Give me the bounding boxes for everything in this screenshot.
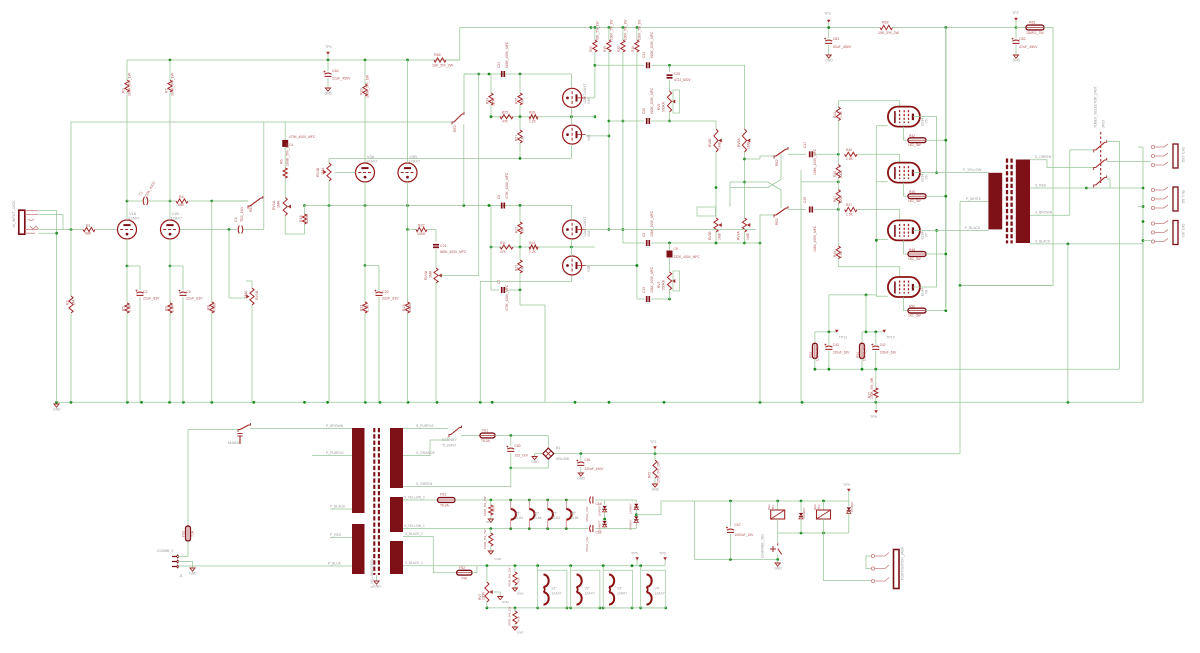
capacitor C5 (180, 292, 187, 293)
wire (1142, 220, 1144, 402)
wire g3 stub (876, 239, 888, 241)
svg-text:1N4007: 1N4007 (628, 519, 632, 530)
ground rail net GND y=402 (57, 401, 1143, 403)
wire channel A merge (745, 158, 761, 160)
potentiometer RV4B (328, 158, 330, 163)
svg-text:47K: 47K (500, 250, 507, 254)
wire coil rail (778, 532, 849, 534)
wire RE3 down (463, 125, 465, 206)
wire V8 grid (838, 267, 899, 277)
svg-text:12AX7: 12AX7 (171, 216, 183, 221)
svg-text:V5": V5" (515, 512, 521, 516)
triode V4A (563, 88, 582, 107)
svg-text:S_BLACK: S_BLACK (1035, 240, 1051, 244)
svg-text:1MA: 1MA (277, 200, 281, 208)
wire V3A cathode (364, 182, 366, 266)
svg-text:TP8: TP8 (870, 415, 877, 419)
svg-text:EL84: EL84 (571, 516, 579, 520)
svg-text:RV1A: RV1A (272, 200, 276, 210)
wire V5 cathode (902, 127, 904, 141)
svg-text:RV1B: RV1B (255, 290, 259, 300)
resistor R64 (514, 566, 516, 572)
wire row247 (491, 246, 571, 248)
svg-text:TL39PO: TL39PO (442, 444, 456, 448)
wire right block top (862, 331, 884, 333)
svg-text:R68: R68 (517, 616, 521, 622)
heater V2'' 12AX7 (571, 570, 600, 608)
ground symbol (325, 88, 330, 91)
diode D6 (604, 500, 606, 505)
potentiometer RV1B (250, 288, 254, 305)
svg-text:12AX7: 12AX7 (585, 592, 595, 596)
crossover wires (730, 182, 781, 208)
svg-text:P_BROWN: P_BROWN (326, 424, 344, 428)
wire (652, 64, 746, 66)
resistor R67 (490, 529, 492, 533)
wire (829, 27, 880, 29)
resistor R7 (169, 59, 172, 62)
capacitor C21 (433, 244, 439, 246)
pentode EL84 V5 (888, 107, 920, 127)
svg-text:C2: C2 (143, 290, 148, 294)
wire V1B cathode (169, 239, 171, 266)
resistor R21 (364, 266, 366, 303)
wire V1A cathode (126, 239, 128, 266)
svg-text:C23: C23 (497, 62, 501, 68)
wire P_BLACK stub (330, 508, 352, 510)
svg-text:C3: C3 (234, 217, 238, 222)
transformer T1 core (373, 428, 375, 575)
svg-text:C9: C9 (674, 247, 678, 251)
svg-text:GND: GND (517, 592, 525, 596)
capacitor C10 (646, 296, 648, 302)
svg-text:1.5K: 1.5K (839, 110, 843, 118)
svg-text:R15: R15 (603, 46, 607, 52)
bridge rectifier B1 (543, 448, 554, 459)
wire S_BLACK (1030, 243, 1143, 245)
resistor R3 (126, 60, 128, 80)
resistor R14 (529, 245, 538, 249)
speaker jack SK5_8R (1173, 221, 1178, 245)
svg-text:R54: R54 (856, 352, 860, 358)
wire screen bus (945, 28, 947, 309)
svg-text:RV4B: RV4B (316, 167, 320, 177)
potentiometer RV3B (714, 218, 718, 232)
svg-text:R65: R65 (434, 53, 441, 57)
svg-text:470uF_16V: 470uF_16V (585, 536, 589, 552)
resistor R22 (408, 229, 417, 231)
svg-text:R29: R29 (589, 46, 593, 52)
wire (893, 27, 1017, 29)
svg-text:TP9: TP9 (843, 483, 850, 487)
svg-text:473K_400V_MFC: 473K_400V_MFC (505, 284, 509, 311)
svg-text:05V: 05V (771, 505, 775, 510)
wire V4B plate link (586, 135, 609, 137)
svg-text:22uF_450V: 22uF_450V (332, 77, 351, 81)
svg-text:683K_400V_MFC: 683K_400V_MFC (650, 87, 654, 114)
test point TP2 (1014, 18, 1018, 21)
svg-text:SK3_16Ω: SK3_16Ω (1181, 147, 1185, 163)
wire to screen bus (926, 195, 946, 197)
svg-text:1.5K: 1.5K (366, 304, 370, 312)
svg-text:GND: GND (517, 631, 525, 635)
wire row243 to ground (745, 242, 761, 244)
svg-text:1.5K: 1.5K (846, 213, 854, 217)
capacitor C42 (875, 332, 877, 345)
wire row243 (623, 242, 644, 244)
diode D7 (603, 518, 606, 521)
svg-text:C8: C8 (642, 233, 646, 237)
capacitor C23 (501, 71, 503, 77)
wire bias feed (801, 170, 838, 182)
wire (427, 230, 436, 243)
svg-text:150RJ_7W: 150RJ_7W (1026, 31, 1044, 35)
wire pole3 out (1107, 179, 1110, 188)
svg-text:C6: C6 (497, 195, 501, 199)
speaker jack SK4_8R (1173, 187, 1178, 211)
svg-text:TP1: TP1 (650, 440, 657, 444)
resistor bank R29 (594, 26, 597, 29)
wire RE1 riser (263, 122, 265, 230)
wire C7 col (519, 290, 521, 305)
test point TP5 (635, 557, 639, 560)
potentiometer RV7 (486, 566, 488, 582)
wire plate row to RE1 (188, 200, 248, 202)
svg-text:1N4007: 1N4007 (802, 507, 806, 518)
wire V2A cathode (570, 239, 572, 247)
svg-text:R11: R11 (500, 241, 506, 245)
wire left block riser (828, 295, 830, 332)
resistor R5 (126, 266, 128, 303)
wire (652, 121, 717, 129)
wire V2A plate row (586, 229, 756, 231)
svg-text:TB3_1KV: TB3_1KV (240, 206, 244, 222)
svg-text:TP2: TP2 (1012, 11, 1019, 15)
svg-text:GND: GND (531, 460, 539, 464)
wire (729, 182, 731, 207)
heater V8'' EL84 (565, 500, 567, 509)
svg-text:KBL408: KBL408 (556, 457, 569, 461)
svg-text:R14: R14 (529, 241, 535, 245)
wire inlet pin1 (178, 556, 189, 558)
test point TP6 (663, 557, 667, 560)
svg-text:C63: C63 (833, 37, 840, 41)
triode V3B (398, 163, 417, 182)
potentiometer RV3A (742, 218, 746, 232)
ground symbol (826, 55, 831, 58)
svg-text:222K_400V_MFC: 222K_400V_MFC (674, 255, 701, 259)
svg-text:10K_5%_2W: 10K_5%_2W (878, 31, 900, 35)
test point TP4 (326, 52, 330, 55)
wire S_GREEN (1030, 160, 1094, 168)
svg-text:200R: 200R (482, 591, 486, 600)
resistor R68 (514, 608, 516, 611)
wire V1B plate (169, 201, 171, 220)
svg-text:R12: R12 (515, 227, 519, 233)
svg-text:R24: R24 (486, 98, 490, 104)
svg-text:S_YELLOW/GREEN: S_YELLOW/GREEN (370, 558, 374, 588)
capacitor C63 (825, 40, 832, 41)
footswitch jack (894, 550, 900, 589)
svg-text:R41: R41 (833, 196, 837, 202)
svg-text:R40: R40 (833, 171, 837, 177)
test point TP9 (847, 489, 851, 492)
svg-text:TP5: TP5 (631, 552, 638, 556)
svg-text:05V: 05V (817, 505, 821, 510)
svg-text:154K_400V_MFC: 154K_400V_MFC (650, 266, 654, 293)
capacitor C3 (238, 226, 239, 234)
resistor R8 (211, 201, 213, 302)
wire (652, 242, 745, 244)
svg-text:1MB: 1MB (746, 232, 750, 240)
svg-text:1.5K: 1.5K (171, 304, 175, 312)
svg-text:R1: R1 (86, 224, 91, 228)
svg-text:FOOTSWITCH_JACK: FOOTSWITCH_JACK (901, 546, 905, 580)
svg-text:100K: 100K (417, 232, 426, 236)
svg-text:1.5K: 1.5K (846, 157, 854, 161)
resistor R61 (1016, 27, 1026, 29)
capacitor C9 (669, 243, 671, 250)
wire C24 to RV6A (744, 65, 746, 129)
svg-text:R45: R45 (909, 190, 915, 194)
resistor R43 (837, 101, 839, 107)
svg-text:100K_5%_1W: 100K_5%_1W (128, 72, 132, 96)
svg-text:C62: C62 (1019, 37, 1026, 41)
svg-text:S_YELLOW_2: S_YELLOW_2 (404, 496, 425, 500)
svg-text:TUBES_SELECTOR_24OT: TUBES_SELECTOR_24OT (1094, 86, 1098, 128)
svg-text:S_PURPLE: S_PURPLE (416, 424, 434, 428)
svg-text:C26: C26 (642, 108, 646, 114)
resistor R24 (490, 74, 492, 93)
wire S_PURPLE (403, 428, 448, 430)
svg-text:RV2: RV2 (657, 281, 661, 288)
wire S_BROWN (1030, 214, 1070, 216)
pot box RV3B (697, 207, 716, 216)
transformer T1 primary winding (352, 428, 365, 513)
wire V4A plate link (586, 97, 595, 99)
svg-text:SK4_8Ω: SK4_8Ω (1181, 190, 1185, 204)
wire (777, 533, 779, 544)
svg-text:1.5K: 1.5K (839, 250, 843, 258)
svg-text:100R_5%_7W: 100R_5%_7W (483, 529, 487, 549)
svg-text:1K2_3W: 1K2_3W (908, 314, 922, 318)
wire RE1 left (212, 200, 248, 202)
svg-text:R13: R13 (515, 265, 519, 271)
resistor R45 (908, 194, 926, 199)
svg-text:1000uF_16V: 1000uF_16V (735, 533, 755, 537)
svg-text:R62: R62 (882, 21, 889, 25)
triode V2A (563, 220, 582, 239)
svg-text:683K_400V_MFC: 683K_400V_MFC (505, 41, 509, 68)
fuse FS3 (438, 498, 456, 503)
wire row74 (477, 73, 480, 76)
svg-text:R23: R23 (402, 304, 406, 311)
svg-text:12AX7: 12AX7 (128, 216, 140, 221)
svg-text:C21: C21 (440, 244, 447, 248)
svg-text:V5: V5 (925, 119, 929, 123)
svg-text:C41: C41 (803, 142, 807, 148)
test point TP3 (827, 20, 831, 23)
svg-text:R8: R8 (206, 305, 210, 310)
svg-text:P_PURPLE: P_PURPLE (326, 451, 344, 455)
relay contact RE2 lower (760, 215, 774, 243)
svg-text:R25: R25 (502, 111, 508, 115)
triode V3A (356, 163, 375, 182)
svg-text:68K: 68K (85, 232, 92, 236)
resistor R11 (500, 245, 513, 249)
svg-text:10K_5%_2W: 10K_5%_2W (432, 64, 454, 68)
svg-text:12AX7: 12AX7 (617, 592, 627, 596)
wire V5 grid (838, 101, 899, 107)
resistor R66 (490, 500, 492, 505)
wire V7 cathode (902, 240, 904, 254)
diode D10 (848, 491, 850, 506)
capacitor C64 (327, 60, 329, 71)
wire V2A grid (570, 206, 572, 221)
svg-text:220uF_63V: 220uF_63V (833, 351, 850, 355)
capacitor C40 (809, 207, 811, 213)
svg-text:T4A: T4A (461, 577, 468, 581)
selector pole 3 (1094, 185, 1096, 188)
resistor R28 (529, 115, 538, 119)
svg-text:CHANNEL_SEL: CHANNEL_SEL (761, 533, 765, 558)
capacitor C81 (580, 454, 582, 460)
wire RV7 wiper gnd (492, 592, 500, 597)
capacitor C24 (646, 62, 648, 68)
wire bright bus (71, 122, 452, 230)
svg-text:220uF_450V: 220uF_450V (585, 467, 605, 471)
svg-text:GND: GND (774, 567, 782, 571)
triode V4B (563, 125, 582, 144)
svg-text:1K2_3W: 1K2_3W (908, 199, 922, 203)
svg-text:1M: 1M (521, 99, 525, 104)
capacitor C8 (646, 240, 648, 246)
svg-text:S_ORANGE: S_ORANGE (416, 451, 436, 455)
svg-text:C25: C25 (674, 72, 680, 76)
svg-text:82K_5%_1W: 82K_5%_1W (596, 21, 600, 40)
transformer core (1006, 159, 1008, 244)
svg-text:V2": V2" (585, 587, 591, 591)
svg-text:R6: R6 (280, 159, 284, 164)
wire RE2a to C41 (788, 153, 806, 155)
svg-text:1N4007: 1N4007 (850, 501, 854, 512)
wire jack ring (39, 215, 64, 230)
svg-text:GND: GND (825, 59, 833, 63)
wire (694, 501, 696, 560)
svg-text:1MA: 1MA (244, 290, 248, 298)
svg-text:B1: B1 (556, 446, 560, 450)
resistor R54 (861, 332, 863, 343)
wire selector common (1107, 142, 1120, 370)
svg-text:GND: GND (495, 557, 503, 561)
svg-text:P_RED: P_RED (330, 533, 342, 537)
wire S_YELLOW_1 (403, 528, 588, 530)
resistor bank R16 (636, 26, 639, 29)
svg-text:154K_400V_MFC: 154K_400V_MFC (813, 148, 817, 175)
capacitor C41 (809, 151, 811, 157)
svg-text:R30: R30 (617, 46, 621, 52)
wire heater bottom rail (487, 607, 666, 609)
svg-text:220uF_63V: 220uF_63V (880, 351, 897, 355)
svg-text:P_BLACK: P_BLACK (330, 505, 346, 509)
svg-text:220K: 220K (839, 194, 843, 203)
wire V7 grid (857, 210, 900, 222)
svg-text:470R_5%_1W: 470R_5%_1W (508, 606, 512, 626)
svg-text:1MB: 1MB (718, 141, 722, 149)
svg-text:22uF_63V: 22uF_63V (186, 297, 203, 301)
svg-text:T6.3A: T6.3A (440, 504, 450, 508)
svg-text:TP6: TP6 (659, 552, 666, 556)
wire bridge top (547, 436, 549, 449)
capacitor C1 (127, 200, 142, 202)
test point TP11 (835, 330, 839, 333)
wire R61 to center tap bus (960, 28, 1053, 286)
resistor R50 (908, 308, 926, 313)
svg-text:GND: GND (1013, 59, 1021, 63)
svg-text:1MB: 1MB (718, 232, 722, 240)
svg-text:1K2_3W: 1K2_3W (908, 143, 922, 147)
selector pole 1 (1094, 150, 1096, 153)
wire S_BLACK to ground (1067, 244, 1069, 402)
svg-text:R3: R3 (122, 88, 126, 93)
transformer T2 secondary winding (1016, 160, 1030, 244)
svg-text:R20: R20 (360, 88, 364, 95)
capacitor C62 (1015, 28, 1017, 39)
wire center tap P_WHITE (959, 202, 961, 286)
resistor R12 (519, 206, 521, 223)
svg-text:R16: R16 (631, 46, 635, 52)
svg-text:RV8B: RV8B (708, 138, 712, 147)
svg-text:1.5K: 1.5K (128, 304, 132, 312)
wire pole2 out (1107, 161, 1151, 163)
wire heater top rail (477, 565, 665, 567)
svg-text:C10: C10 (642, 287, 646, 293)
pentode EL84 V8 (888, 277, 920, 297)
svg-text:472J_630V: 472J_630V (674, 78, 691, 82)
svg-text:220K: 220K (839, 169, 843, 178)
svg-text:C43: C43 (833, 343, 839, 347)
svg-text:12AX7: 12AX7 (655, 592, 665, 596)
svg-text:R46: R46 (846, 148, 852, 152)
transformer T2 primary winding (988, 173, 1002, 230)
wire V1A plate (126, 201, 128, 220)
triode V1B (161, 220, 180, 239)
wire g3 stub (876, 295, 888, 297)
capacitor C4 (284, 122, 286, 140)
svg-text:FS3: FS3 (440, 493, 446, 497)
capacitor C26 (646, 118, 648, 124)
svg-text:12AX7: 12AX7 (366, 159, 378, 164)
svg-text:C80: C80 (515, 444, 521, 448)
svg-text:TP10: TP10 (886, 336, 895, 340)
wire RE2b to C40 (788, 209, 806, 211)
svg-text:220K_5%_3W: 220K_5%_3W (657, 461, 661, 483)
svg-text:C81: C81 (585, 458, 591, 462)
wire bank col1 to V4A plate (594, 52, 596, 98)
svg-text:100K_5%_1W: 100K_5%_1W (286, 142, 290, 166)
resistor R40 (837, 154, 839, 164)
svg-text:RV3B: RV3B (708, 231, 712, 240)
svg-text:1N4007: 1N4007 (598, 505, 602, 516)
svg-text:FS0: FS0 (182, 531, 186, 537)
svg-text:V7": V7" (552, 512, 558, 516)
svg-text:R5: R5 (122, 306, 126, 311)
resistor R48 (908, 252, 926, 257)
wire row116 (491, 116, 595, 118)
wire (1138, 206, 1143, 208)
wire NFB rail (815, 368, 1119, 370)
fuse FS0 (186, 526, 191, 541)
